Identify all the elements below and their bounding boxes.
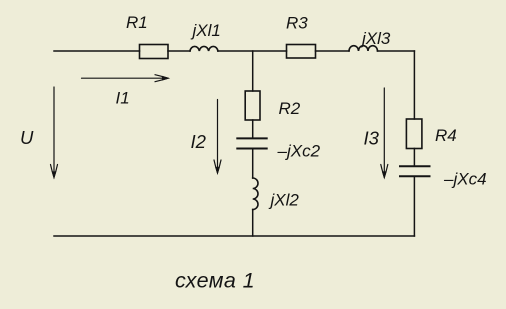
wire R4 to C4 — [413, 149, 415, 167]
inductor jXl1 — [190, 46, 218, 51]
svg-text:R2: R2 — [279, 99, 301, 118]
wire R3 to L3 — [316, 50, 350, 52]
svg-text:jXl1: jXl1 — [191, 21, 221, 40]
arrow I2 — [217, 100, 219, 172]
capacitor C4 (-jXc4) — [400, 165, 430, 167]
wire right branch top — [413, 51, 415, 119]
svg-text:jXl2: jXl2 — [269, 191, 300, 210]
wire middle branch top — [252, 51, 254, 91]
wire R2 to C2 — [252, 120, 254, 138]
arrow U — [53, 87, 55, 176]
wire C4 to bottom — [413, 176, 415, 236]
svg-text:–jXc2: –jXc2 — [277, 142, 321, 161]
wire L2 to bottom — [252, 210, 254, 237]
svg-text:R1: R1 — [126, 13, 148, 32]
svg-text:I3: I3 — [364, 127, 380, 148]
inductor jXl2 — [253, 178, 258, 210]
wire R1 to L1 — [168, 50, 190, 52]
svg-text:U: U — [20, 127, 34, 148]
resistor R2 — [245, 91, 260, 120]
arrow I1 — [82, 77, 167, 79]
wire bottom — [54, 235, 414, 237]
svg-text:–jXc4: –jXc4 — [443, 170, 487, 189]
svg-text:R3: R3 — [286, 14, 308, 33]
resistor R4 — [406, 119, 422, 149]
capacitor C2 (-jXc2) — [237, 137, 266, 139]
resistor R3 — [287, 45, 316, 59]
resistor R1 — [140, 45, 169, 59]
svg-text:jXl3: jXl3 — [360, 29, 391, 48]
wire top-left segment — [54, 50, 140, 52]
wire L1 to R3 (through node) — [218, 50, 287, 52]
svg-text:I1: I1 — [116, 89, 130, 108]
wire C2 to L2 — [252, 149, 254, 179]
svg-text:I2: I2 — [191, 131, 207, 152]
svg-text:R4: R4 — [435, 126, 457, 145]
svg-text:схема 1: схема 1 — [175, 269, 255, 293]
inductor jXl3 — [349, 46, 378, 51]
arrow I3 — [383, 88, 385, 176]
wire L3 to top-right corner — [378, 50, 415, 52]
